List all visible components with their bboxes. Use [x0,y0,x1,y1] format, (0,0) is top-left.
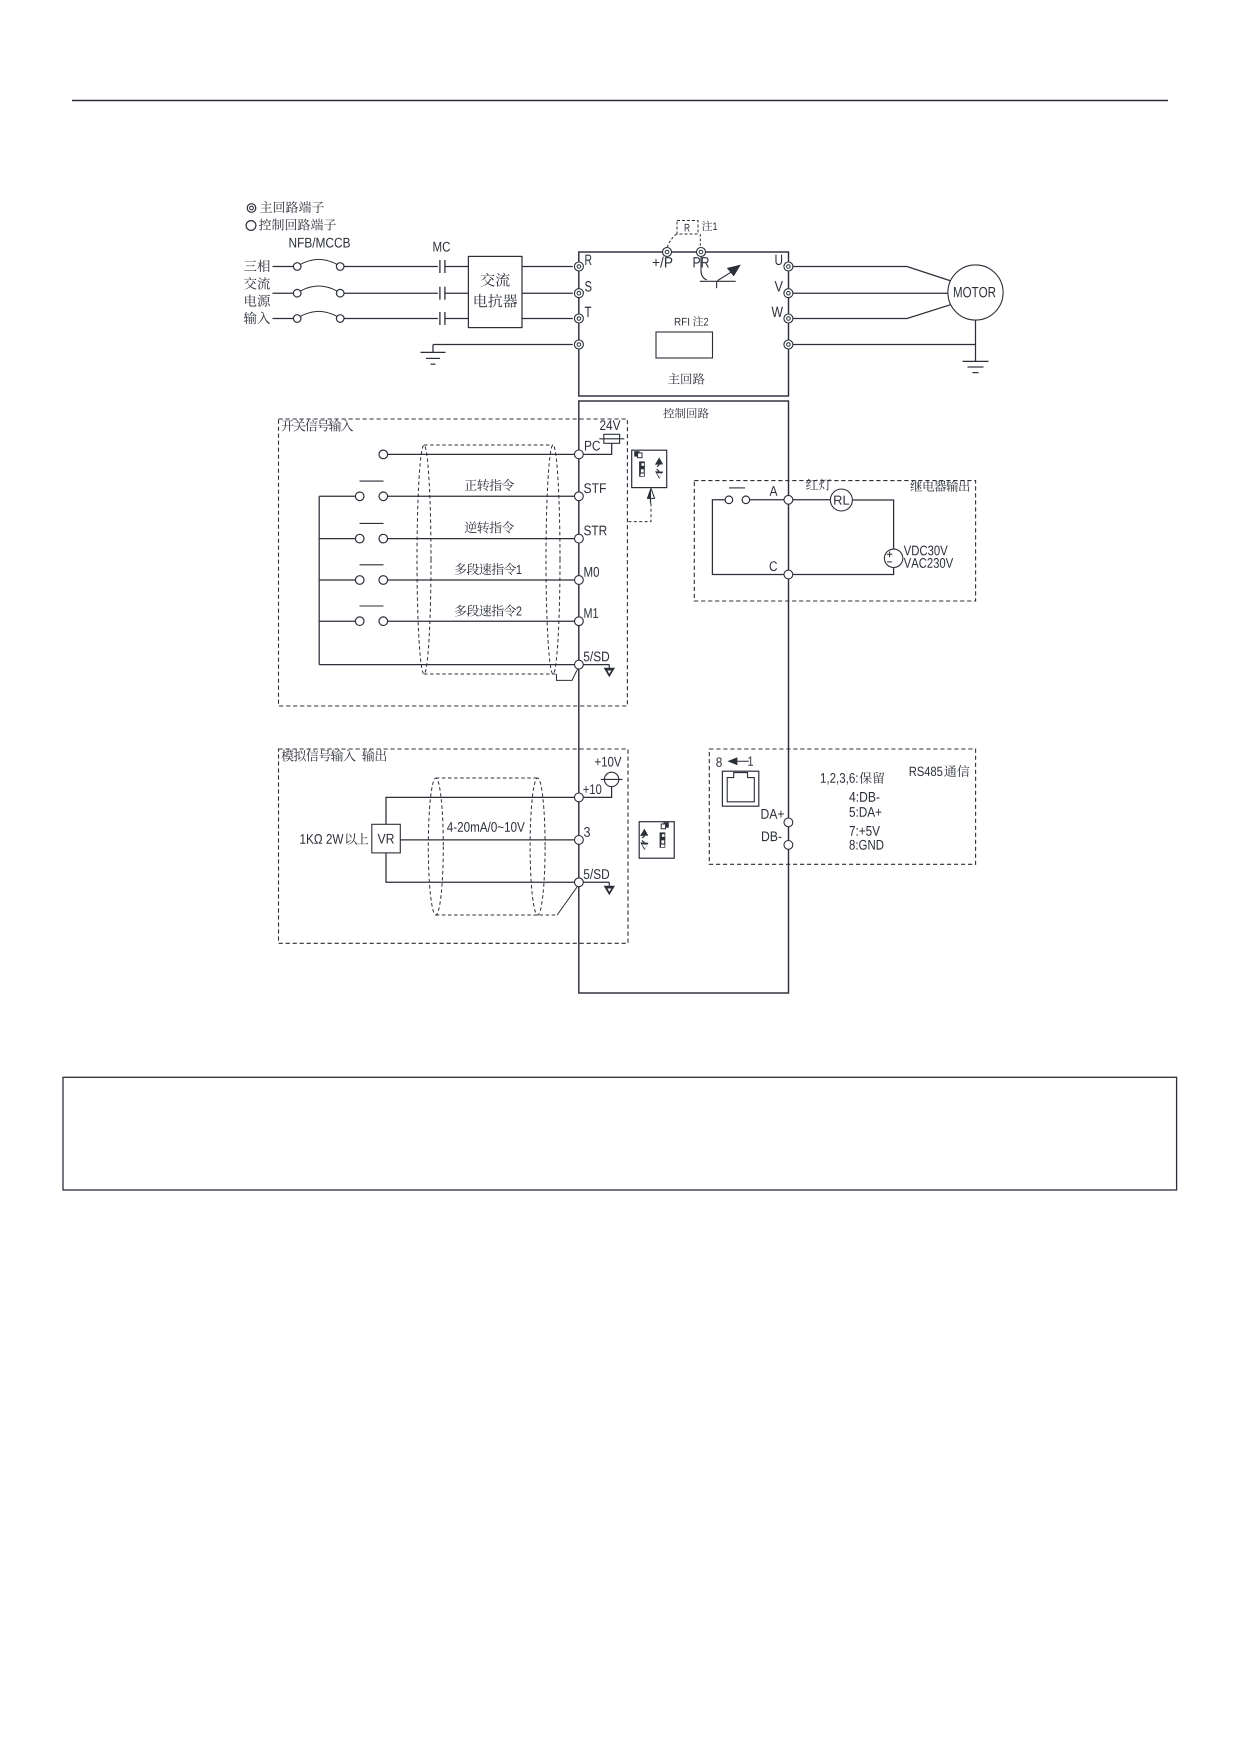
wire M0 switch to terminal [388,579,575,581]
wire MC to reactor phase T [445,318,469,320]
pin list 4:DB- [849,792,855,802]
wire VR wiper to 3 [400,839,574,841]
wire reactor to terminal T [522,318,573,320]
label +/P [653,259,660,266]
terminal DB- [784,841,793,850]
label 模拟信号输入 输出 [281,750,293,762]
legend label 控制回路端子 [259,219,271,231]
bottom rail to 5/SD [319,664,574,666]
legend control-circuit terminal symbol [246,221,256,231]
label RL [834,496,842,505]
breaker NFB/MCCB pole S [293,289,301,297]
terminal A [784,495,793,504]
label 5/SD digital [584,652,590,662]
wire reactor to terminal R [522,266,573,268]
common rail (switch inputs) [318,496,320,664]
PC input contact [379,450,388,459]
breaker NFB/MCCB pole T [293,315,301,323]
terminal V [784,289,793,298]
potentiometer VR box [372,824,401,853]
terminal W [784,314,793,323]
terminal PC [575,450,584,459]
label 开关信号输入 [282,420,294,432]
lamp RL 红灯 [830,489,852,511]
wire input phase S to breaker [273,292,294,294]
terminal +10 [575,793,584,802]
pin list 8:GND [849,840,854,850]
top rule [72,100,1168,102]
label V [775,281,783,291]
wire 5/SD to common ground arrow [583,664,609,666]
label RS485通信 [910,767,917,776]
label DA+ [761,809,768,819]
pin list 7:+5V [850,826,855,836]
input ground wire [433,344,573,346]
label 1KΩ 2W以上 [300,834,305,844]
relay contact [725,496,733,504]
ground (motor) [963,360,989,362]
terminal T [574,314,583,323]
wire RL to source [852,500,893,549]
label PC [585,441,591,451]
jumper selector dashed link [627,503,651,521]
RJ45 pin order arrow 8 to 1 [729,760,749,762]
wire STF switch to terminal [388,495,575,497]
wire 5/SD to ground arrow (analog) [583,881,609,883]
common ground arrow (digital) [604,668,615,677]
shielded cable (analog) [428,778,443,915]
label 正转指令 [465,479,477,490]
label 主回路 [668,373,679,384]
terminal STR [575,534,584,543]
wire relay contact to terminal A [750,499,784,501]
terminal R [574,262,583,271]
label U [775,255,782,265]
label 8 [716,757,721,767]
label STR [584,526,591,536]
inverter main circuit box 主回路 [579,252,789,396]
wire A to lamp RL [793,499,831,501]
analog signal dashed box 模拟信号输入 输出 [279,749,629,943]
analog jumper selector [639,822,674,859]
label RFI 注2 [675,318,681,326]
switch STF [355,492,364,501]
label VAC230V [904,558,911,568]
terminal PE input [574,340,583,349]
label 多段速指令1 [455,563,467,575]
notes box [63,1077,1177,1190]
label 多段速指令2 [455,605,467,617]
pin list 1,2,3,6:保留 [821,773,826,783]
terminal 5/SD analog [575,878,584,887]
wire MC to reactor phase R [445,266,469,268]
label STF [584,483,591,493]
brake transistor switch below PR [701,257,707,280]
label 红灯 [806,479,818,490]
shield drain wire to analog 5/SD [557,886,577,915]
label 24V [600,420,605,430]
pin list 5:DA+ [849,807,855,817]
label MOTOR [954,287,962,297]
label R in brake resistor box [685,224,690,232]
switch STR [355,534,364,543]
wire reactor to terminal S [522,292,573,294]
label R [585,255,591,265]
terminal PR [697,248,706,257]
wire M1 switch to terminal [388,620,575,622]
wire input phase R to breaker [273,266,294,268]
label S [585,281,591,292]
wire breaker to MC pole R [344,266,438,268]
terminal +/P [663,248,672,257]
label 逆转指令 [465,521,477,533]
common ground arrow (analog) [604,886,615,895]
wire +10V symbol to +10 terminal [583,787,611,798]
24V supply fuse [604,434,620,443]
wire fuse to PC terminal [583,443,611,454]
ground (input side) [421,351,446,353]
label 3 [584,827,590,837]
wire PC contact to PC terminal [388,453,575,455]
brake resistor R dashed box 注1 [677,221,698,235]
label PR [694,257,701,267]
wire MC to reactor phase S [445,292,469,294]
label MC [433,242,441,252]
wire rail to STR switch [319,538,355,540]
wire U to motor [793,267,951,281]
label W [772,307,783,317]
contactor MC pole T [439,312,441,325]
breaker NFB/MCCB pole R [293,263,301,271]
+10V source terminal symbol [604,772,618,786]
AC reactor box 交流电抗器 [468,256,522,327]
jumper selector arrow [647,488,654,498]
terminal M0 [575,576,584,585]
wire breaker to MC pole S [344,292,438,294]
terminal M1 [575,617,584,626]
shielded cable (digital inputs) [417,445,431,674]
wire VR top to +10 [386,797,575,824]
wire rail to STF switch [319,495,355,497]
control circuit box 控制回路 [579,401,789,993]
terminal DA+ [784,818,793,827]
wire input phase T to breaker [273,318,294,320]
label 1 [748,757,753,766]
label A [770,486,778,496]
label 注1 [702,221,712,231]
label 继电器输出 [910,480,922,491]
wire PE to motor ground [793,344,976,346]
label C [770,561,777,571]
relay output dashed box 继电器输出 [694,481,975,601]
terminal 5/SD digital [575,660,584,669]
label M0 [584,567,592,577]
terminal 3 [575,836,584,845]
legend label 主回路端子 [260,201,272,212]
wire breaker to MC pole T [344,318,438,320]
wire W to motor [793,305,951,319]
terminal PE output [784,340,793,349]
label VDC30V [904,546,911,556]
sink/source jumper selector [632,450,667,487]
wire V to motor [793,292,948,294]
motor M [948,265,1003,320]
RFI filter block 注2 [656,332,713,358]
wire relay contact left leg [712,500,784,575]
label NFB/MCCB [289,238,296,248]
switch M0 [355,576,364,585]
RJ45 connector [722,771,758,806]
label 5/SD analog [584,869,590,879]
terminal C [784,570,793,579]
label 控制回路 [663,408,674,419]
contactor MC pole S [439,287,441,300]
contactor MC pole R [439,260,441,273]
terminal S [574,289,583,298]
shield drain wire to 5/SD [557,668,579,680]
label M1 [584,608,591,618]
wire rail to M0 switch [319,579,355,581]
source VDC30V/VAC230V [884,549,902,567]
label T [585,307,591,317]
switch signal input dashed box 开关信号输入 [279,419,628,706]
label DB- [762,831,769,841]
label 三相交流电源输入 [244,260,257,271]
switch M1 [355,617,364,626]
terminal U [784,262,793,271]
label +10V [595,758,601,765]
label 4-20mA/0~10V [447,822,453,832]
wire STR switch to terminal [388,538,575,540]
terminal STF [575,492,584,501]
wire source to terminal C [793,568,894,575]
legend main-circuit terminal symbol [247,204,256,213]
label +10 [583,786,588,793]
wire VR bottom to 5/SD [386,853,575,882]
wire rail to M1 switch [319,620,355,622]
label VR [378,834,386,844]
RS485 dashed box RS485通信 [709,749,975,864]
